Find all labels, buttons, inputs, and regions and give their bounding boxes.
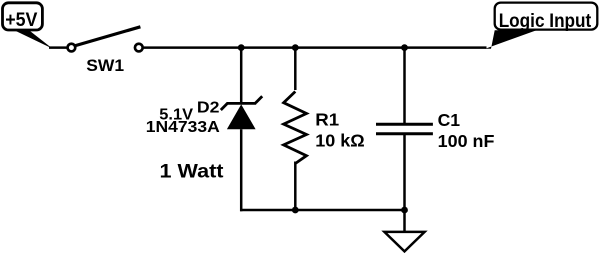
- capacitor C1: [376, 110, 494, 151]
- wire switch to Logic Input: [143, 46, 487, 49]
- wire zener anode to bottom rail: [240, 129, 243, 211]
- wire node to resistor top: [294, 48, 297, 90]
- flag Logic Input: [485, 3, 597, 49]
- node resistor bottom: [292, 207, 299, 214]
- svg-text:+5V: +5V: [5, 9, 37, 31]
- resistor R1: [284, 92, 365, 164]
- svg-text:R1: R1: [315, 109, 339, 129]
- svg-text:100 nF: 100 nF: [438, 131, 495, 151]
- wire +5V to switch: [49, 46, 67, 49]
- zener diode D2: [221, 96, 262, 129]
- svg-text:Logic Input: Logic Input: [499, 11, 592, 32]
- flag +5V: [3, 3, 53, 49]
- wire capacitor bottom plate to ground: [403, 134, 406, 231]
- svg-text:10 kΩ: 10 kΩ: [315, 131, 364, 151]
- bottom rail wire: [240, 209, 405, 212]
- svg-text:D2: D2: [197, 100, 220, 117]
- svg-text:1 Watt: 1 Watt: [160, 161, 224, 183]
- svg-text:1N4733A: 1N4733A: [146, 119, 220, 136]
- svg-text:SW1: SW1: [86, 56, 124, 75]
- ground: [384, 232, 424, 252]
- wire resistor to bottom rail: [294, 162, 297, 211]
- wire node to zener cathode: [240, 48, 243, 104]
- node capacitor top: [401, 44, 408, 51]
- wire node to capacitor top plate: [403, 48, 406, 125]
- node resistor top: [292, 44, 299, 51]
- switch SW1: [68, 27, 143, 75]
- node diode top: [238, 44, 245, 51]
- svg-text:C1: C1: [438, 110, 461, 130]
- node ground junction: [401, 207, 408, 214]
